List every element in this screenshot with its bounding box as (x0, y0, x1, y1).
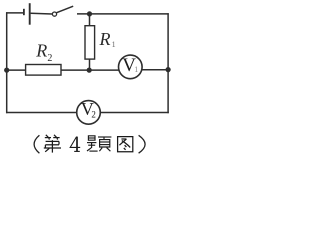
wire: R1 branch bottom (89, 59, 91, 70)
voltmeter V1 circle (119, 55, 143, 79)
switch S blade (open) (57, 6, 74, 13)
caption ( (34, 135, 39, 153)
battery cell: long plate (29, 3, 31, 25)
wire: R1 branch top (89, 14, 91, 26)
wire: bottom left of V2 (6, 112, 77, 114)
svg-text:1: 1 (134, 65, 138, 74)
wire: battery to switch (31, 12, 52, 15)
caption ) (139, 135, 146, 153)
svg-text:2: 2 (47, 53, 52, 64)
wire: right vertical (167, 13, 169, 113)
svg-text:R: R (35, 41, 47, 61)
svg-text:R: R (99, 29, 111, 49)
resistor R2 box (26, 65, 61, 76)
caption glyph 第 (44, 135, 61, 153)
node: junction dot middle-left (4, 68, 9, 73)
label V2 meter letter (81, 99, 96, 120)
label V1 meter letter (122, 55, 138, 76)
node: junction dot bottom of R1 (87, 68, 92, 73)
wire: bottom right of V2 (100, 112, 169, 114)
battery cell: short plate (23, 9, 25, 15)
wire: R2 to mid junction to V1 (61, 69, 119, 71)
resistor R1 box (85, 26, 95, 59)
wire: middle left to R2 (7, 69, 26, 71)
node: junction dot right side (V1 wire) (166, 67, 171, 72)
wire: switch to top-right corner (77, 13, 169, 15)
svg-text:1: 1 (112, 40, 116, 49)
wire: left vertical (6, 12, 8, 113)
wire: V1 to right junction (142, 69, 168, 71)
svg-text:2: 2 (91, 109, 96, 119)
switch S pivot circle (52, 12, 56, 16)
label R1 (99, 29, 116, 49)
label R2 (35, 41, 52, 64)
caption glyph 题 (87, 136, 111, 151)
node: junction dot top of R1 branch (87, 11, 92, 16)
wire: top from corner to battery (6, 12, 23, 14)
caption glyph 图 (118, 137, 133, 152)
voltmeter V2 circle (77, 101, 101, 125)
caption digit 4 (70, 137, 80, 152)
